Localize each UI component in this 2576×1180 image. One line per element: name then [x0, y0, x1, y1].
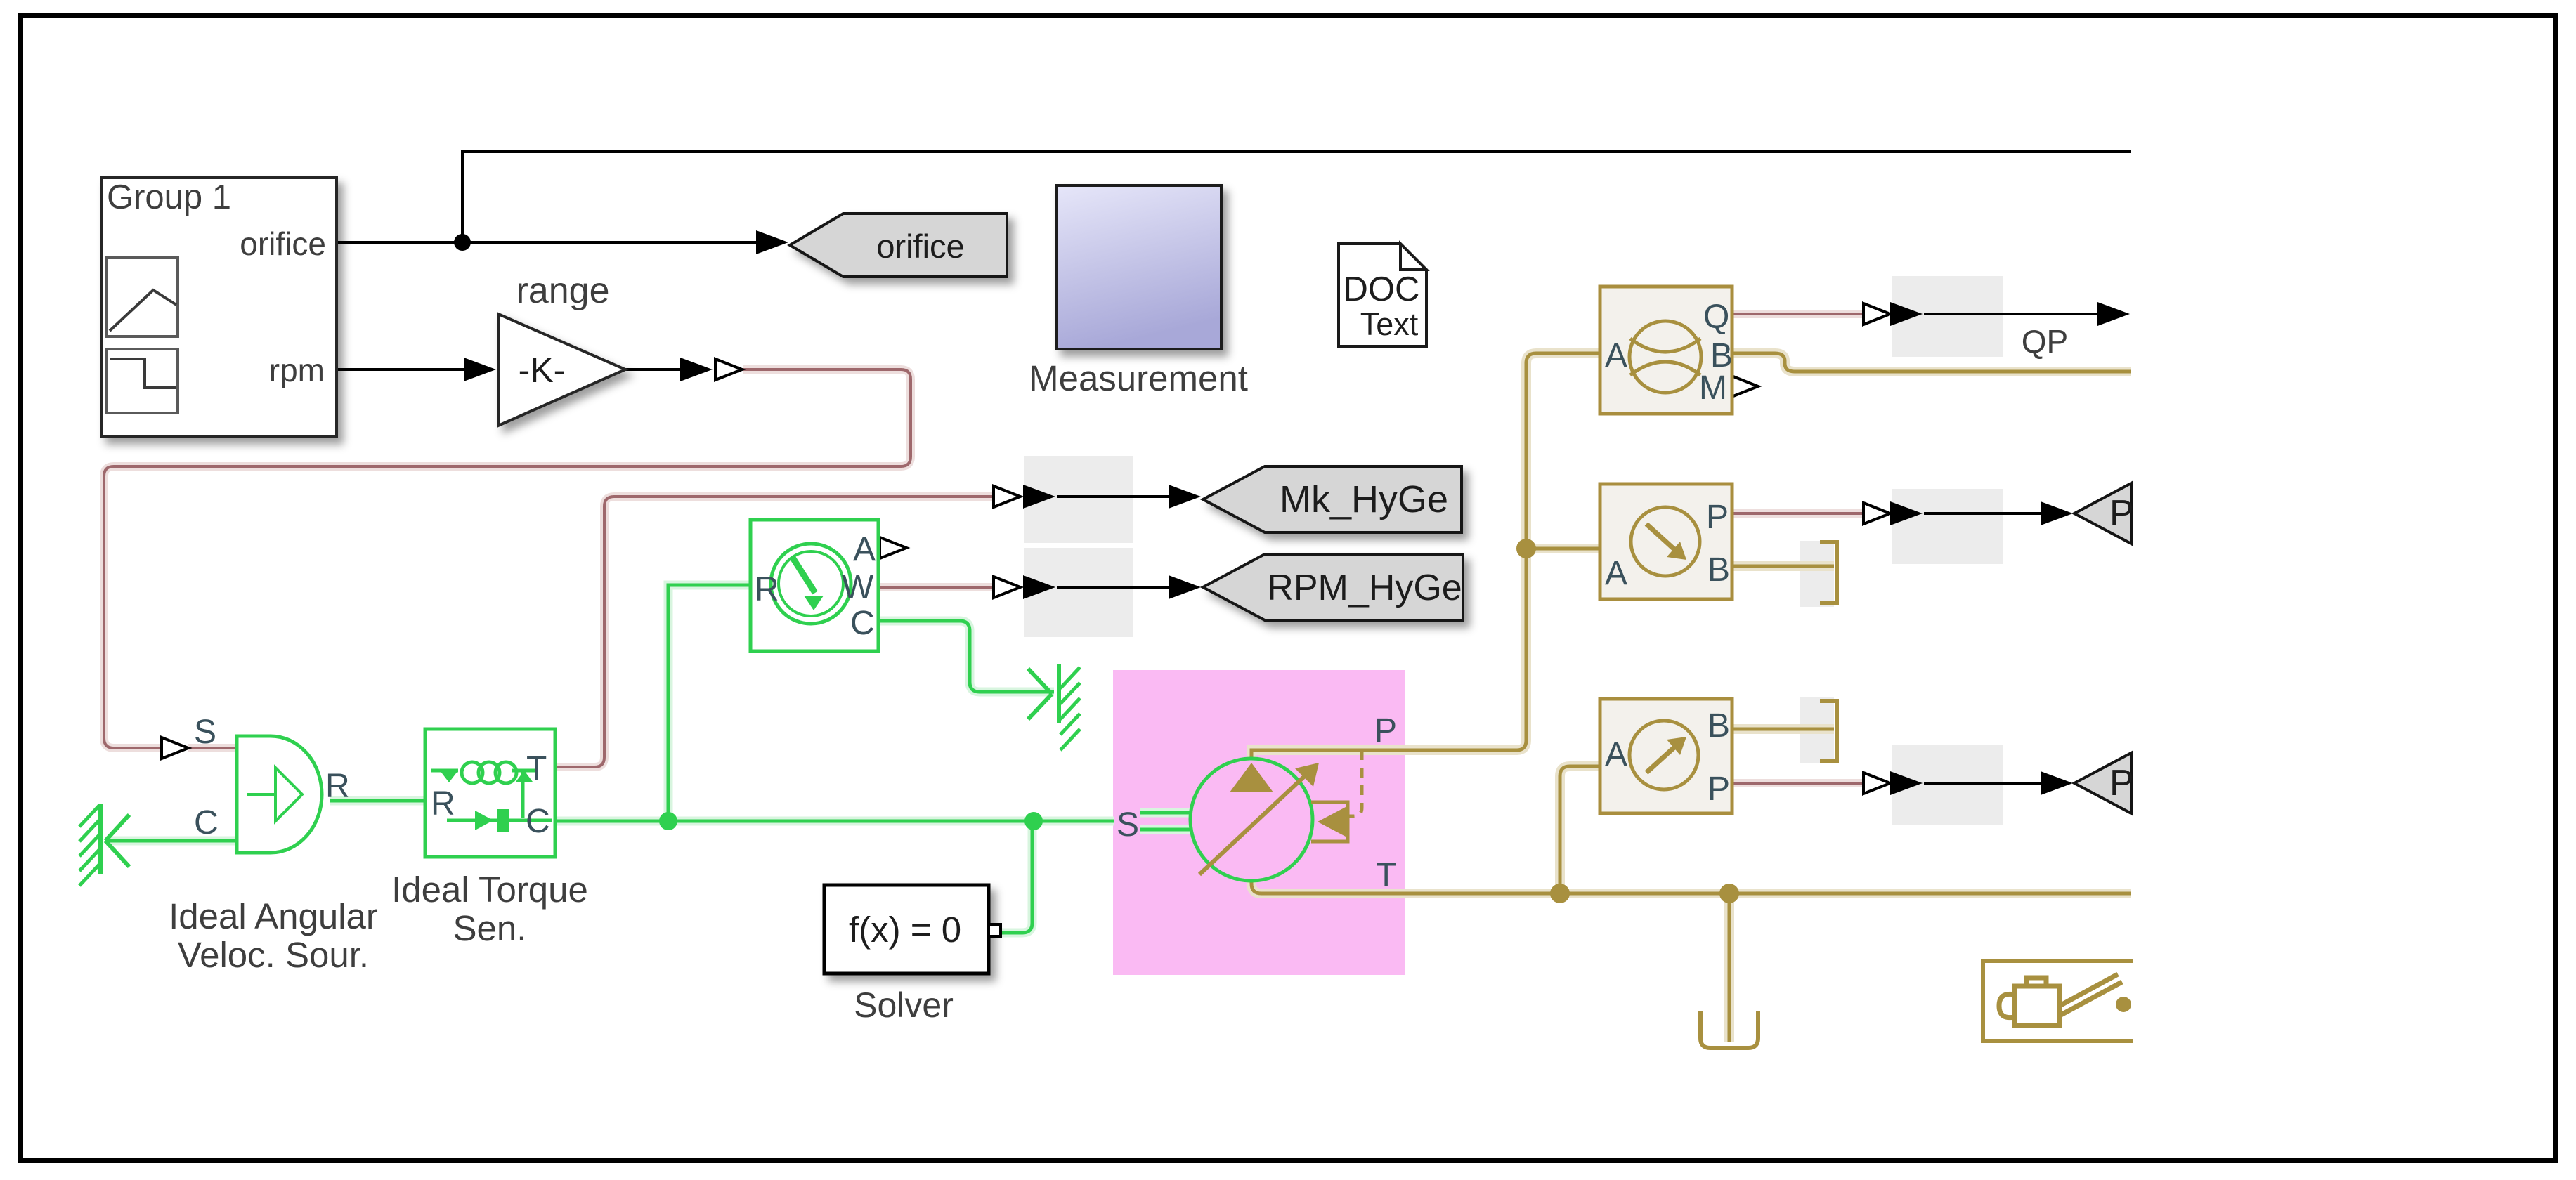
doc text icon	[1339, 244, 1426, 346]
wire Mk row signal	[994, 486, 1020, 507]
mechanical wire halos	[106, 585, 1190, 933]
svg-text:orifice: orifice	[876, 228, 964, 265]
svg-text:R: R	[755, 571, 779, 608]
wire sensor3 A to T bus	[1560, 766, 1600, 886]
wire riser to motion R	[668, 585, 750, 821]
svg-text:f(x) = 0: f(x) = 0	[849, 910, 961, 950]
svg-text:DOC: DOC	[1344, 270, 1420, 308]
pump control arrow	[1318, 807, 1346, 837]
svg-text:B: B	[1707, 551, 1730, 589]
goto tag orifice	[790, 214, 1007, 277]
junction tan 1	[1516, 539, 1536, 558]
wire orifice out with top feedback	[337, 152, 2131, 242]
svg-text:M: M	[1699, 369, 1727, 407]
mechanical reference left	[79, 804, 129, 886]
wire gain to velocity source S	[104, 369, 911, 748]
converter box P1 row	[1892, 489, 2003, 564]
wire sensor3 P	[1732, 782, 1863, 785]
wire rpm to gain	[337, 368, 485, 371]
svg-text:P: P	[1374, 712, 1397, 749]
subsystem Group 1	[101, 178, 337, 437]
svg-text:P: P	[2109, 763, 2134, 804]
wire QP row signal	[1863, 303, 1890, 324]
converter box QP row	[1892, 276, 2003, 357]
svg-text:Ideal Angular: Ideal Angular	[169, 896, 378, 936]
svg-text:C: C	[526, 803, 550, 840]
wire motion C to ground	[880, 621, 1054, 692]
gain range	[498, 314, 625, 426]
junction black	[454, 234, 471, 251]
hydraulic wire halos	[1251, 353, 2131, 1042]
oil reservoir block clipped	[1983, 961, 2135, 1041]
svg-text:range: range	[516, 270, 610, 311]
svg-text:Text: Text	[1360, 306, 1419, 342]
svg-text:A: A	[1605, 736, 1627, 773]
svg-text:R: R	[431, 785, 455, 822]
svg-text:W: W	[842, 569, 874, 606]
pump highlight area	[1113, 670, 1405, 975]
wire P3 row signal	[1863, 773, 1890, 794]
svg-text:orifice: orifice	[240, 225, 326, 262]
pump dashed control line	[1349, 750, 1362, 816]
small box behind cap B2	[1800, 541, 1834, 607]
converter box P3 row	[1892, 745, 2003, 825]
block pressure sensor S3	[1600, 699, 1732, 813]
pump variable arrow	[1199, 773, 1308, 874]
junction tan 3	[1719, 884, 1739, 903]
svg-text:S: S	[1117, 806, 1139, 844]
svg-text:Ideal Torque: Ideal Torque	[391, 870, 588, 910]
open arrow into velocity source S	[162, 737, 188, 759]
canvas clip cover	[2133, 19, 2552, 1157]
wire motion W to RPM row	[880, 586, 994, 589]
wire junction to sensor2 A	[1526, 547, 1600, 551]
svg-text:T: T	[1376, 857, 1396, 894]
svg-text:P: P	[1706, 499, 1729, 536]
svg-text:Group 1: Group 1	[107, 178, 231, 216]
svg-text:Mk_HyGe: Mk_HyGe	[1280, 478, 1448, 520]
open arrow motion sensor A	[880, 537, 906, 558]
converter box RPM row	[1024, 548, 1133, 637]
junction tan 2	[1550, 884, 1570, 903]
tank symbol	[1700, 1011, 1758, 1048]
wire pump S lower	[1140, 828, 1190, 832]
svg-text:Veloc. Sour.: Veloc. Sour.	[178, 935, 369, 975]
cap symbol B2	[1820, 542, 1837, 603]
svg-text:B: B	[1707, 707, 1730, 745]
svg-text:A: A	[1605, 337, 1627, 374]
wire sensor1 A to pump P	[1251, 353, 1600, 759]
svg-text:Q: Q	[1703, 299, 1729, 336]
converter box Mk row	[1024, 456, 1133, 543]
svg-text:QP: QP	[2022, 323, 2068, 360]
wire S arrow to block	[188, 747, 237, 749]
wire P1 row signal	[1863, 503, 1890, 524]
wire sensor1 Q	[1732, 313, 1863, 315]
goto tag Mk_HyGe	[1203, 466, 1462, 532]
wire green bus C	[555, 820, 1114, 823]
svg-text:C: C	[850, 605, 875, 642]
svg-text:Sen.: Sen.	[453, 908, 527, 948]
subsystem Measurement	[1056, 185, 1221, 349]
wire ground to velocity source C	[106, 839, 236, 843]
block Ideal Torque Sensor	[425, 729, 555, 857]
goto tag P clipped row1	[2074, 483, 2131, 544]
mechanical reference right	[1028, 664, 1080, 750]
svg-text:T: T	[526, 750, 547, 787]
svg-text:R: R	[325, 768, 350, 805]
open arrow sensor1 M	[1731, 376, 1758, 397]
pump green circle	[1190, 759, 1313, 881]
block Ideal Angular Velocity Source	[237, 736, 322, 853]
svg-text:A: A	[1605, 555, 1627, 592]
physical signal halos	[104, 314, 1863, 783]
wire sensor2 B to cap	[1732, 565, 1834, 568]
wire velocity source R to torque R	[330, 799, 425, 803]
wire gain output	[625, 368, 683, 371]
pump up triangle	[1230, 763, 1273, 792]
goto tag P clipped row2	[2074, 753, 2131, 813]
svg-text:P: P	[2109, 493, 2134, 534]
junction green 1	[659, 812, 677, 830]
svg-text:rpm: rpm	[269, 352, 325, 388]
svg-text:C: C	[194, 804, 219, 841]
wire RPM row signal	[994, 577, 1020, 598]
svg-text:A: A	[853, 531, 876, 568]
svg-text:RPM_HyGe: RPM_HyGe	[1267, 568, 1462, 608]
wire sensor2 P	[1732, 512, 1863, 515]
svg-text:Measurement: Measurement	[1029, 358, 1248, 398]
small box behind cap B3	[1800, 697, 1834, 763]
svg-text:S: S	[194, 714, 216, 751]
wire T bus to tank	[1728, 893, 1731, 1042]
wire pump S upper	[1140, 811, 1190, 815]
goto tag RPM_HyGe	[1203, 554, 1463, 620]
block pressure sensor S2	[1600, 484, 1732, 599]
svg-text:P: P	[1707, 771, 1730, 808]
block flow rate sensor S1	[1600, 287, 1732, 414]
svg-text:Solver: Solver	[854, 985, 954, 1025]
wire sensor1 B to right	[1732, 353, 2131, 372]
wire sensor3 B to cap	[1732, 728, 1834, 731]
junction green 2	[1024, 812, 1043, 830]
wire torque T to Mk row	[555, 497, 994, 767]
wire pump T bus	[1251, 880, 2131, 893]
wire solver to bus	[991, 822, 1032, 933]
block Ideal Rotational Motion Sensor	[750, 520, 878, 651]
solver block f(x)=0	[824, 885, 989, 973]
cap symbol B3	[1820, 701, 1837, 761]
svg-text:-K-: -K-	[519, 350, 566, 390]
